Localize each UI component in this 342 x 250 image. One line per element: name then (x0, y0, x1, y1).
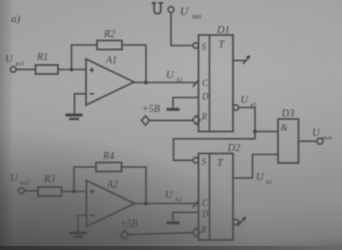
terminal Uзап (168, 7, 174, 13)
node junction A2 output (144, 202, 148, 206)
terminal diamond +5В lower (121, 231, 129, 240)
svg-text:C: C (202, 78, 209, 88)
svg-text:R: R (201, 112, 208, 122)
wire minus input to ground (75, 94, 87, 114)
wire (58, 69, 86, 71)
op-amp A1 (86, 59, 134, 105)
pin D2 inverse output bubble (233, 219, 238, 224)
svg-text:U: U (256, 172, 265, 183)
svg-text:&: & (281, 123, 288, 133)
svg-text:D2: D2 (227, 143, 242, 154)
svg-text:+5В: +5В (120, 219, 138, 230)
svg-text:вх2: вх2 (21, 180, 31, 187)
ground A1 (66, 114, 83, 117)
svg-text:А2: А2 (174, 197, 183, 204)
svg-text:U: U (5, 53, 14, 65)
terminal Uвых (317, 138, 323, 144)
wire feedback up (72, 45, 98, 70)
arrow unconnected D2 (238, 218, 245, 226)
wire (16, 68, 35, 70)
pin C2 dynamic mark (193, 201, 198, 207)
svg-text:D3: D3 (281, 109, 295, 120)
wire A2 output to C of D2 (135, 203, 199, 205)
svg-text:R2: R2 (103, 29, 115, 40)
node junction A2 input (72, 190, 76, 194)
terminal Uвх1 (11, 67, 17, 73)
ground A2 (70, 232, 87, 235)
svg-text:U: U (180, 6, 189, 18)
svg-text:А1: А1 (175, 77, 183, 84)
wire feedback right (122, 45, 146, 83)
svg-text:зап: зап (191, 13, 202, 21)
svg-text:U: U (166, 70, 175, 81)
svg-text:U: U (312, 127, 321, 139)
power +5В bar upper (167, 108, 180, 111)
op-amp A2 (87, 181, 135, 227)
wire +5В to R of D1 (150, 119, 193, 121)
svg-text:Т: Т (219, 40, 226, 51)
node junction Uв1 (253, 130, 257, 134)
svg-text:А2: А2 (106, 180, 118, 191)
wire (25, 190, 39, 192)
svg-text:R: R (200, 225, 207, 235)
svg-text:U: U (241, 95, 250, 106)
wire feedback right (122, 167, 147, 204)
svg-text:D: D (201, 209, 209, 219)
svg-text:C: C (202, 198, 209, 208)
wire D2 direct output to D3 (233, 155, 278, 179)
svg-text:вх1: вх1 (16, 61, 25, 68)
svg-text:U: U (165, 190, 174, 201)
svg-text:D: D (201, 92, 209, 102)
svg-text:U: U (10, 172, 19, 184)
svg-text:S: S (202, 157, 207, 167)
wire D3 output (299, 140, 318, 142)
wire D input D2 to +5V (173, 212, 199, 221)
svg-text:R3: R3 (43, 174, 55, 185)
svg-text:а): а) (11, 13, 21, 25)
terminal Uвх2 (19, 188, 25, 194)
svg-text:S: S (202, 42, 207, 52)
svg-text:в2: в2 (266, 179, 273, 186)
pin D1 inverse output bubble (233, 105, 238, 110)
wire (239, 221, 242, 223)
wire +5В to R of D2 (129, 233, 193, 235)
node junction A1 output (144, 81, 148, 85)
wire minus input to ground (78, 216, 87, 232)
terminal diamond +5В upper (142, 116, 150, 125)
wire (62, 191, 87, 193)
wire D input D1 to +5V (173, 98, 199, 108)
svg-text:А1: А1 (105, 55, 117, 66)
wire Uв1 to S of D2 (174, 132, 256, 161)
arrow unconnected D1 (243, 57, 249, 64)
svg-text:Т: Т (217, 158, 224, 169)
node junction A1 input (70, 68, 74, 72)
svg-text:R4: R4 (102, 151, 114, 162)
wire Uзап to S of D1 (171, 13, 193, 46)
wire A1 output to C of D1 (134, 82, 199, 84)
svg-text:в1: в1 (251, 102, 257, 109)
svg-text:R1: R1 (36, 52, 48, 63)
pin C1 dynamic mark (193, 80, 198, 86)
wire feedback up (74, 167, 96, 192)
svg-text:вых: вых (322, 135, 332, 142)
power +5В bar lower (167, 221, 180, 224)
svg-text:+5В: +5В (142, 104, 160, 115)
wire Uв1 (239, 108, 279, 132)
wire D1 direct output (233, 60, 246, 62)
pulse symbol (152, 3, 164, 14)
